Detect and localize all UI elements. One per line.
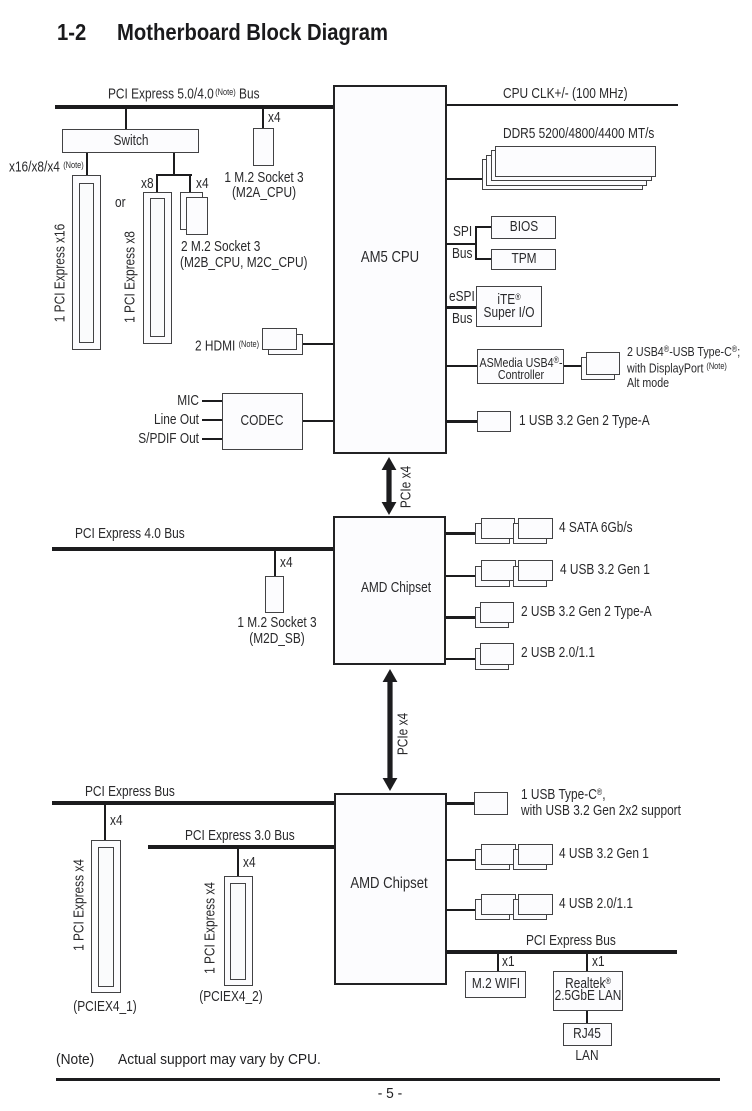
component: PCI Express x16 slot [72,175,101,350]
wire: eSPI bus from CPU [446,306,476,309]
wire: bus to PCIEX4_1 [104,805,106,840]
title heading [57,21,86,44]
component: USB4 type-C ports (stacked) [581,357,616,379]
label: PCIe x4 (vertical) [397,713,412,755]
pin label: x4 (PCIEX4_1) [110,814,123,829]
wire: Realtek to RJ45 [586,1011,588,1023]
wire: bus to Realtek LAN [586,954,588,971]
component: M.2 socket M2A_CPU [253,128,275,166]
component: CODEC [222,393,303,450]
wire: ASMedia to USB4 ports [564,365,581,368]
page number [295,1087,485,1102]
wire: switch to PCIe x16 slot [86,153,88,175]
net label: eSPI Bus [449,290,475,305]
wire: chipset to USB 3.2 Gen1 [446,575,476,577]
component: USB 3.2 Gen2 Type-A port [477,411,511,432]
label: LAN [505,1049,669,1064]
label: 1 PCI Express x4 (vertical) [203,882,218,974]
wire: chipset to SATA [446,532,476,534]
wire: SPI bus from CPU [446,243,477,246]
component: 2 USB 2.0 ports (stacked) [475,648,510,670]
wire: bus to M2D [274,551,276,576]
wire: chipset to USB 2.0 [446,658,476,660]
wire: CODEC to CPU [303,420,333,422]
component: USB Type-C port [474,792,509,814]
pin label: x4 (M2A) [268,111,281,126]
label: x16/x8/x4 (Note) [9,158,84,176]
pin label: x1 (LAN) [592,955,605,970]
component: PCIEX4_2 slot [224,876,253,986]
wire: bus to switch [125,109,127,129]
wire: splitter to x8 slot [156,174,158,192]
wire: CPU to ASMedia [446,365,478,368]
wire: CPU to DIMMs [446,178,484,180]
component: PCI Express x8 slot [143,192,172,345]
wire: chipset to USB type-C [446,802,474,804]
component: Switch [62,129,200,153]
wire: splitter bar [156,174,192,176]
label: 1 PCI Express x16 (vertical) [53,223,68,321]
wire: PCI Express 3.0 bus (thick) [148,845,334,849]
component: RJ45 [563,1023,612,1046]
label: PCIe x4 (vertical) [400,466,415,508]
component: DIMM slots (stack of 4) [482,159,643,190]
component: TPM [491,249,556,270]
arrow: PCIe x4 chipset-chipset [382,669,398,791]
wire: HDMI to CPU [303,343,333,345]
component: M.2 sockets M2B/M2C (stacked) [180,192,202,230]
wire: CPU to USB 3.2 Gen2 Type-A [446,420,478,423]
label: DDR5 [503,127,654,142]
wire: bus to M.2 WIFI [497,954,499,971]
wire: switch to x8/x4 splitter [173,153,175,174]
wire: chipset to USB 3.2 Gen2 Type-A [446,616,476,618]
component: 4 USB 2.0 ports (2 stacks, lower) [475,899,510,920]
wire: PCI Express 5.0/4.0 bus (thick) [55,105,333,109]
pin label: x4 (M2B/C) [196,177,209,192]
wire: chipset to USB 2.0 (lower) [446,909,476,911]
wire: PCI Express 4.0 bus (thick) [52,547,333,551]
note text [56,1053,94,1068]
label: 1 PCI Express x8 (vertical) [124,231,139,323]
component: 4 USB 3.2 Gen1 ports (2 stacks) [475,566,510,587]
pin label: x1 (WIFI) [502,955,515,970]
wire: PCI Express bus (thick, bottom-right) [446,950,677,954]
net label: SPI Bus [453,225,472,240]
wire: splitter to M2B/M2C [189,174,191,192]
wire: MIC stub [202,400,222,403]
component: AMD Chipset (lower) [334,793,447,985]
component: Realtek 2.5GbE LAN [553,971,623,1011]
component: iTE Super I/O [476,286,542,327]
arrow: PCIe x4 CPU-chipset [381,457,397,515]
pin label: x8 [141,177,154,192]
wire: chipset to USB 3.2 Gen1 (lower) [446,859,476,861]
label: or [115,196,126,211]
label: 1 PCI Express x4 (vertical) [72,859,87,951]
label: 2 USB4 Type-C [627,342,740,359]
pin label: x4 (M2D) [280,556,293,571]
component: 4 SATA ports (2 stacks) [475,523,510,545]
net label: PCI Express 5.0/4.0 Bus [108,85,260,103]
component: ASMedia USB4 Controller [477,349,563,384]
component: M.2 socket M2D_SB [265,576,285,613]
component: AM5 CPU [333,85,447,455]
pin label: x4 (PCIEX4_2) [243,856,256,871]
wire: PCI Express bus (thick, bottom-left) [52,801,334,805]
component: AMD Chipset (upper) [333,516,447,666]
component: M.2 WIFI [465,971,527,998]
wire: S/PDIF Out stub [202,438,222,441]
component: 4 USB 3.2 Gen1 ports (2 stacks, lower) [475,849,510,870]
component: BIOS [491,216,556,239]
component: PCIEX4_1 slot [91,840,121,993]
wire: bus to PCIEX4_2 [237,849,239,877]
wire: Line Out stub [202,419,222,422]
wire: bus to M2A socket [262,109,264,128]
component: 2 HDMI ports (stacked) [195,337,259,355]
footer rule [56,1078,720,1081]
component: 2 USB 3.2 Gen2 Type-A ports (stacked) [475,607,510,629]
wire: CPU CLK [446,104,678,106]
